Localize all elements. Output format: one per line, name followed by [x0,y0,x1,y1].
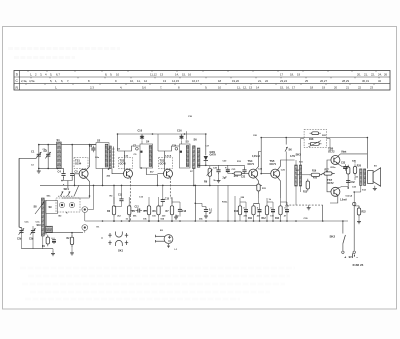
svg-text:7,: 7, [160,86,163,90]
wire output bases link [326,167,328,177]
wire C27 down [286,214,288,221]
svg-text:30,31: 30,31 [362,79,369,83]
capacitor C23 electrolytic [243,207,248,213]
wire C20 down [218,173,220,178]
svg-text:13: 13 [160,73,164,77]
resistor R15 [306,179,309,191]
wire TS1 emitter to range unit [80,196,90,198]
wire rail to SK2 [342,221,344,234]
wire emitter bus rail [40,184,262,186]
wire S2 bottom to rail [102,169,104,186]
winding box S10 [46,226,53,232]
wire S5 primary to TS3 collector [165,146,180,151]
capacitor C3b padder [31,228,35,235]
wire C15 to rail [162,185,164,197]
switch SK1 lever b [68,191,71,196]
wire to C20 [218,165,220,168]
wire range unit top [62,197,80,199]
capacitor C20 [216,168,220,175]
wire into TS2 [118,151,125,171]
wire C17 top [172,202,180,207]
battery cell symbol [352,253,354,258]
svg-text:R18: R18 [309,138,314,141]
table row line 1 [14,76,390,78]
svg-text:32: 32 [378,79,382,83]
wire C16 to S5 [181,140,183,144]
svg-text:C10: C10 [138,130,143,133]
resistor R4 [128,204,131,217]
wire C1a vertical [38,145,40,169]
svg-text:4,5a: 4,5a [29,79,35,83]
resistor R20 [353,164,356,175]
svg-text:14: 14 [256,86,260,90]
transformer S5 second IF winding [186,146,189,167]
svg-text:26,27: 26,27 [320,79,327,83]
svg-text:21: 21 [346,86,350,90]
svg-text:11,12: 11,12 [150,73,157,77]
svg-text:12,: 12, [243,86,247,90]
svg-text:20: 20 [334,86,338,90]
wire supply to output transformer [366,137,368,169]
capacitor C12 [136,208,143,212]
wire S6 return [193,169,195,186]
wire output mid column [347,167,349,189]
earphone plug B2 [156,235,173,244]
transformer S12 output winding b [364,169,366,186]
wire resistor R3 up [113,197,115,204]
wire frame aerial lead [19,158,21,228]
wire K1 to rail [84,212,86,221]
diode GR1 detector [204,156,208,160]
wire R22 down [358,217,360,219]
wire R9 to rail [209,178,211,186]
winding box S9 [46,201,58,214]
svg-text:OC72: OC72 [327,182,334,185]
svg-text:OC44: OC44 [75,163,82,166]
wire S12 bottom lead [360,185,362,192]
wire resistor R4 up [128,197,130,204]
svg-text:S10: S10 [37,224,42,227]
resistor R16 [309,173,322,176]
svg-text:3,: 3, [40,73,43,77]
battery terminal minus [342,251,344,253]
plug arrow [167,244,169,247]
resistor R2 oscillator [70,235,73,247]
svg-text:2µF: 2µF [223,177,228,180]
wire bias box right to TS6 base [327,139,331,152]
svg-text:1,5mA: 1,5mA [340,199,347,202]
wire R14 down [280,217,282,221]
core adjust S5 [180,151,182,153]
wire S6 to det line [198,164,200,167]
svg-text:23,24: 23,24 [280,79,287,83]
wire S4 primary to TS2 collector [125,146,141,151]
resistor R10 [238,204,241,217]
wire C10 to S4 [141,140,143,144]
ground R7 C17 [174,215,178,220]
svg-text:21,: 21, [258,79,262,83]
transformer S5 second IF [180,144,191,168]
svg-text:0,4mA: 0,4mA [165,154,172,157]
svg-text:R16: R16 [312,171,317,173]
trimmer circle C14 [175,148,178,151]
svg-text:8,: 8, [105,73,108,77]
svg-text:R10a: R10a [222,202,228,204]
wire R12 up [266,198,268,204]
wire TS4 emitter [256,177,259,182]
svg-text:C11: C11 [118,195,123,197]
wire volume return drop [194,185,196,221]
svg-text:R15: R15 [303,192,308,194]
wire TS1 collector up [86,145,90,171]
wire S8 down [42,236,44,249]
wire R2 down [71,246,73,251]
wire C12 right [144,210,150,212]
wire bottom negative rail [85,220,348,222]
switch SK1 lever a [61,191,64,196]
svg-text:13: 13 [249,86,253,90]
wire det rail drop b [227,185,229,221]
wire resistor R7 down [171,217,173,221]
wire S1 to C4 [63,168,65,172]
wire aerial input [19,157,36,159]
wire TS6 collector to supply corner [338,154,368,156]
svg-text:21,: 21, [364,73,368,77]
oscillator arrow [35,202,45,215]
svg-text:C16: C16 [177,130,182,133]
wire S2 to TS1 [90,144,97,146]
wire detector line [199,164,245,166]
svg-text:9,: 9, [110,73,113,77]
ground speaker [373,186,377,191]
transformer S11 winding a [295,165,298,186]
wire R16 to R17 [320,174,324,175]
wire resistor R3 down [113,217,115,221]
contact pin b [71,204,73,206]
wire C23 top [240,202,246,207]
wire S11 bottom [300,186,302,192]
svg-text:C22: C22 [241,177,246,179]
wire tuning top rail [39,144,96,146]
svg-text:24,: 24, [378,73,382,77]
wire bus to C16 [181,134,183,136]
transformer S6 winding a [193,146,196,169]
ground below tuning gang [37,168,41,173]
dashed outline TS3 case [159,158,173,169]
resistor R18 NTC [308,142,321,145]
wire resistor R6 down [158,217,160,221]
wire resistor R5 up [148,197,150,204]
ground R22 [357,219,361,224]
wire to ground stem [52,249,54,252]
resistor R19 [347,165,350,176]
connector SK1 pins [108,232,128,247]
svg-text:Ubat: Ubat [341,151,347,154]
wire TS4 emitter lower [258,193,260,199]
svg-text:15,: 15, [182,73,186,77]
wire S11 return [295,186,297,205]
wire C11 join R3 [114,203,122,206]
wire SK3a down to chassis [285,152,287,206]
wire SK1 gang link [58,195,74,197]
capacitor C33 [343,164,347,171]
transformer S3 coupling winding [109,146,111,169]
svg-text:10: 10 [218,86,222,90]
dashed outline TS2 case [119,158,133,169]
wire C3b down [32,235,34,249]
svg-text:R10: R10 [234,211,239,213]
wire top rail to C5 [71,145,73,173]
wire diode out [205,160,207,165]
svg-text:C5: C5 [74,170,78,174]
svg-text:C4: C4 [58,170,62,174]
transformer S2 core line [112,147,114,169]
capacitor C2b padder [19,228,23,235]
svg-text:10: 10 [116,73,120,77]
transformer S4 first IF [140,144,153,168]
wire TS3 emitter down dashed [169,178,171,198]
resistor R3 [112,204,115,217]
ground chassis [307,205,311,210]
svg-text:7,: 7, [67,79,70,83]
transistor TS7 output lower [331,187,340,196]
wire C17 down [179,214,181,217]
svg-text:1,: 1, [55,79,58,83]
junction dots on emitter rail [74,185,76,187]
wire C1b vertical [47,145,49,169]
wire TS4 to TS5 base [261,173,271,175]
wire bus to C10 [141,134,143,136]
resistor R11 [252,204,255,217]
table column tick marks [27,71,29,72]
svg-text:23: 23 [370,86,374,90]
wire TS3 base lead [158,173,164,175]
svg-text:+: + [344,255,346,259]
transistor TS1 converter [79,169,88,178]
svg-text:17: 17 [280,73,284,77]
transformer S8 core lines [44,200,46,235]
svg-text:SK1: SK1 [118,249,124,253]
svg-text:11,: 11, [137,79,141,83]
table row line 2 [14,83,390,85]
dashed box range unit [56,198,80,212]
svg-text:2,3a,: 2,3a, [21,79,27,83]
svg-text:25: 25 [305,79,309,83]
resistor R22 [357,206,360,217]
svg-text:11,: 11, [237,86,241,90]
wire osc bottom rail [22,248,54,250]
wire TS4 collector [256,152,262,170]
svg-text:5,: 5, [50,79,53,83]
svg-text:C33: C33 [341,163,346,165]
wire resistor R5 down [148,217,150,221]
junction dots misc [152,133,154,135]
wire S12 to battery line [354,191,361,193]
component location table frame [14,71,390,91]
faint bleed-through text top margin [8,47,120,50]
svg-text:16: 16 [188,73,192,77]
svg-text:10,: 10, [130,79,134,83]
svg-text:S4: S4 [146,140,150,144]
capacitor C9 electrolytic [51,238,56,244]
wire R12 down [266,217,268,221]
capacitor C1b trimmer [46,152,50,159]
svg-text:4,: 4, [120,86,123,90]
wire det rail drop a [217,185,219,221]
wire TS1 base lead [75,174,80,186]
svg-text:6,: 6, [61,79,64,83]
wire TS2 collector feed [117,134,119,151]
switch SK2 lever [343,235,346,244]
resistor R13 series [232,172,244,175]
wire C15 join [159,204,163,206]
svg-text:C2b: C2b [17,239,22,241]
svg-text:2,3: 2,3 [90,86,94,90]
wire to C3b [32,226,34,228]
svg-text:15,: 15, [280,86,284,90]
capacitor C1a tuning gang [37,152,41,159]
svg-text:OA79: OA79 [210,154,217,157]
svg-text:OC72: OC72 [328,150,335,153]
resistor R21 bias top [310,132,321,135]
capacitor C15 [161,197,165,204]
wire R14 up [280,198,282,204]
ground oscillator block [51,251,55,256]
svg-text:16,: 16, [286,86,290,90]
wire TS3 emitter to R7 [170,198,172,204]
svg-text:5,: 5, [50,73,53,77]
svg-text:R11: R11 [248,218,253,220]
svg-text:S1: S1 [57,138,61,142]
resistor R17 [322,172,334,175]
wire down to SK3a [285,138,287,145]
resistor R7 [170,204,173,217]
wire down to band switch [67,181,69,189]
wire R3 from rail [113,185,115,204]
svg-text:22: 22 [265,79,269,83]
transformer S12 output winding a [360,169,362,186]
svg-text:C32: C32 [351,182,356,184]
wire C4 C5 join [64,177,73,181]
junction dots on negative rail [102,220,104,222]
capacitor C6 osc [91,146,95,153]
wire bias box left to S11 [301,139,305,166]
dashed box thermistor bias network [304,129,326,147]
wire R20 top [354,160,356,164]
wire chassis to rail [322,205,324,221]
svg-text:14,: 14, [175,73,179,77]
wire TS5 emitter [278,177,281,198]
wire S11 top [295,160,297,165]
capacitor C32 [346,178,350,185]
wire C26 top [267,202,273,207]
svg-text:C12: C12 [135,206,140,208]
transformer S11 winding b [299,165,301,186]
socket pin K2 [84,226,86,228]
wire tuning rail ext [61,167,64,169]
battery terminal plus [353,251,355,253]
wire to C21 [227,165,229,167]
wire TS7 collector right [338,187,348,189]
connector tick [101,237,103,239]
dashed outline TS1 case [74,158,88,169]
svg-text:26: 26 [384,73,388,77]
wire R10 down [239,217,241,221]
svg-text:OC45: OC45 [120,163,127,166]
svg-text:1,: 1, [55,86,58,90]
wire SK1 to TS1 base [74,185,79,196]
wire C19 link [202,206,206,208]
svg-text:18: 18 [310,86,314,90]
wire TS6 base [327,160,331,167]
transformer S4 first IF winding [149,146,152,167]
wire to detector diode [205,134,207,155]
wire R20 bottom [354,177,356,181]
capacitor C10 decoupling [140,135,144,140]
faint bleed-through text bottom margin [20,267,295,270]
wire K2 link [84,230,86,232]
svg-text:1,: 1, [30,73,33,77]
capacitor C19 decoupling [204,207,208,214]
wire top supply bus [118,133,206,135]
wire R17 right [332,173,335,175]
svg-text:18: 18 [218,79,222,83]
wire to C19 [195,203,202,206]
svg-text:19: 19 [322,86,326,90]
wire tuning bottom rail [38,167,61,169]
wire top supply run right [286,137,367,139]
svg-text:C1: C1 [31,150,35,154]
transformer S8 winding [41,198,44,236]
wire C26 down [272,214,274,221]
svg-text:C18: C18 [182,211,187,213]
wire C25 down [259,214,261,221]
transformer S6 winding b [197,148,200,167]
svg-text:14,15: 14,15 [172,79,179,83]
wire C11 to rail [121,185,123,196]
svg-text:R14: R14 [275,217,280,220]
resistor R1 [46,235,49,246]
svg-text:12: 12 [144,79,148,83]
svg-text:19,20: 19,20 [232,79,239,83]
resistor R9 volume [208,166,211,178]
svg-text:S2: S2 [97,139,101,143]
wire C21 to R13 [228,173,233,175]
transformer S2 oscillator coil winding [105,144,108,167]
svg-text:SK2: SK2 [330,234,336,238]
capacitor C4 [61,171,65,178]
wire AGC tap [186,131,188,139]
capacitor C25 electrolytic [257,207,262,213]
transistor TS3 IF amplifier [164,169,173,178]
resistor R5 [147,204,150,217]
svg-text:28,29: 28,29 [342,79,349,83]
svg-text:9V: 9V [349,255,352,259]
wire supply drop to TS4 TS5 [260,138,262,174]
transistor TS4 AF preamp [249,169,258,178]
wire battery up2 [353,192,355,206]
svg-text:OC71: OC71 [270,163,277,166]
wire C25 top [254,204,260,208]
wire AF supply link [261,137,286,139]
svg-text:R15a: R15a [331,167,337,169]
svg-text:22,: 22, [371,73,375,77]
transistor TS5 driver [271,169,280,178]
svg-text:R12: R12 [262,218,267,220]
svg-text:0,35mA: 0,35mA [252,155,261,158]
capacitor C26 electrolytic [270,207,275,213]
resistor R11 emitter TS4 [257,182,260,193]
